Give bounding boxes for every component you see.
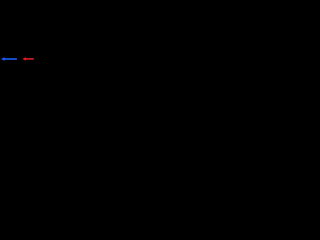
red arrow (left-pointing vector) <box>22 57 33 61</box>
blue arrow (left-pointing vector) <box>1 57 17 61</box>
